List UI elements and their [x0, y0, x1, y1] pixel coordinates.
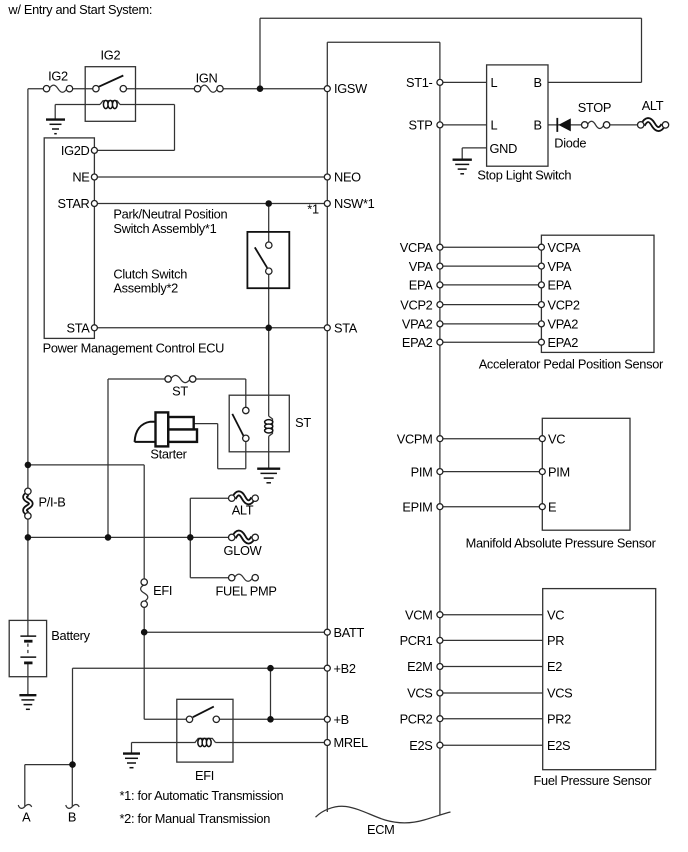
- svg-text:STA: STA: [66, 321, 90, 336]
- svg-text:VC: VC: [548, 431, 565, 446]
- svg-text:STAR: STAR: [58, 196, 90, 211]
- svg-text:VCS: VCS: [547, 686, 572, 701]
- svg-text:+B: +B: [334, 712, 349, 727]
- svg-text:B: B: [534, 75, 542, 90]
- svg-text:Starter: Starter: [150, 446, 187, 461]
- svg-text:E2: E2: [547, 659, 562, 674]
- svg-text:A: A: [22, 809, 31, 824]
- svg-text:STOP: STOP: [578, 100, 611, 115]
- svg-text:PCR2: PCR2: [400, 711, 433, 726]
- svg-text:EPIM: EPIM: [402, 499, 432, 514]
- svg-text:ALT: ALT: [642, 98, 664, 113]
- svg-text:EPA2: EPA2: [548, 335, 579, 350]
- svg-text:VCP2: VCP2: [548, 297, 580, 312]
- svg-text:*1: *1: [307, 201, 319, 216]
- svg-text:IG2: IG2: [48, 68, 68, 83]
- svg-text:VCS: VCS: [407, 686, 432, 701]
- svg-text:GLOW: GLOW: [224, 543, 263, 558]
- svg-text:PIM: PIM: [411, 464, 433, 479]
- svg-text:L: L: [491, 118, 498, 133]
- svg-text:ST: ST: [172, 383, 188, 398]
- svg-text:*2: for Manual Transmission: *2: for Manual Transmission: [120, 811, 271, 826]
- svg-text:Park/Neutral Position: Park/Neutral Position: [113, 207, 227, 222]
- svg-text:Manifold Absolute Pressure Sen: Manifold Absolute Pressure Sensor: [466, 535, 657, 550]
- svg-text:ALT: ALT: [232, 503, 254, 518]
- svg-text:VCPM: VCPM: [397, 431, 433, 446]
- svg-text:B: B: [534, 118, 542, 133]
- svg-text:GND: GND: [490, 141, 518, 156]
- svg-text:NEO: NEO: [334, 170, 361, 185]
- svg-text:Diode: Diode: [554, 136, 586, 151]
- svg-text:EPA2: EPA2: [402, 335, 433, 350]
- svg-text:VCPA: VCPA: [400, 240, 433, 255]
- svg-text:L: L: [491, 75, 498, 90]
- svg-text:VPA: VPA: [548, 259, 573, 274]
- svg-text:STA: STA: [334, 321, 358, 336]
- svg-text:EFI: EFI: [195, 768, 214, 783]
- svg-text:E2S: E2S: [547, 738, 570, 753]
- svg-text:E: E: [548, 499, 556, 514]
- svg-text:Fuel Pressure Sensor: Fuel Pressure Sensor: [534, 773, 653, 788]
- svg-text:E2S: E2S: [409, 738, 432, 753]
- svg-text:PIM: PIM: [548, 464, 570, 479]
- svg-text:*1: for Automatic Transmission: *1: for Automatic Transmission: [120, 788, 284, 803]
- svg-text:+B2: +B2: [334, 661, 356, 676]
- svg-text:FUEL PMP: FUEL PMP: [215, 583, 276, 598]
- svg-text:ST: ST: [295, 415, 311, 430]
- svg-text:Stop Light Switch: Stop Light Switch: [477, 168, 571, 183]
- svg-text:Battery: Battery: [51, 628, 90, 643]
- svg-text:E2M: E2M: [407, 659, 432, 674]
- svg-text:VCM: VCM: [405, 607, 433, 622]
- svg-text:P/I-B: P/I-B: [39, 495, 66, 510]
- svg-text:EPA: EPA: [548, 278, 573, 293]
- svg-text:EFI: EFI: [153, 583, 172, 598]
- svg-text:PR: PR: [547, 633, 564, 648]
- svg-text:VC: VC: [547, 607, 564, 622]
- svg-text:VPA2: VPA2: [402, 317, 433, 332]
- svg-text:VPA2: VPA2: [548, 317, 579, 332]
- svg-text:IG2: IG2: [101, 48, 121, 63]
- svg-text:Accelerator Pedal Position Sen: Accelerator Pedal Position Sensor: [479, 357, 664, 372]
- svg-text:VPA: VPA: [409, 259, 434, 274]
- svg-text:Switch Assembly*1: Switch Assembly*1: [113, 221, 216, 236]
- svg-text:EPA: EPA: [409, 278, 434, 293]
- svg-text:w/ Entry and Start System:: w/ Entry and Start System:: [7, 2, 152, 17]
- svg-text:VCP2: VCP2: [400, 297, 432, 312]
- svg-text:BATT: BATT: [334, 625, 365, 640]
- svg-text:ST1-: ST1-: [406, 75, 433, 90]
- svg-text:Clutch Switch: Clutch Switch: [113, 266, 187, 281]
- svg-text:PR2: PR2: [547, 711, 571, 726]
- svg-text:IGN: IGN: [196, 70, 218, 85]
- svg-text:Assembly*2: Assembly*2: [113, 281, 178, 296]
- svg-text:ECM: ECM: [367, 822, 395, 837]
- svg-text:B: B: [68, 809, 76, 824]
- svg-text:VCPA: VCPA: [548, 240, 581, 255]
- svg-text:Power Management Control ECU: Power Management Control ECU: [43, 340, 225, 355]
- svg-text:STP: STP: [409, 118, 433, 133]
- svg-text:IGSW: IGSW: [334, 81, 368, 96]
- svg-text:NSW*1: NSW*1: [334, 196, 375, 211]
- svg-text:MREL: MREL: [334, 735, 369, 750]
- svg-text:IG2D: IG2D: [61, 143, 90, 158]
- svg-text:PCR1: PCR1: [400, 633, 433, 648]
- svg-text:NE: NE: [72, 170, 89, 185]
